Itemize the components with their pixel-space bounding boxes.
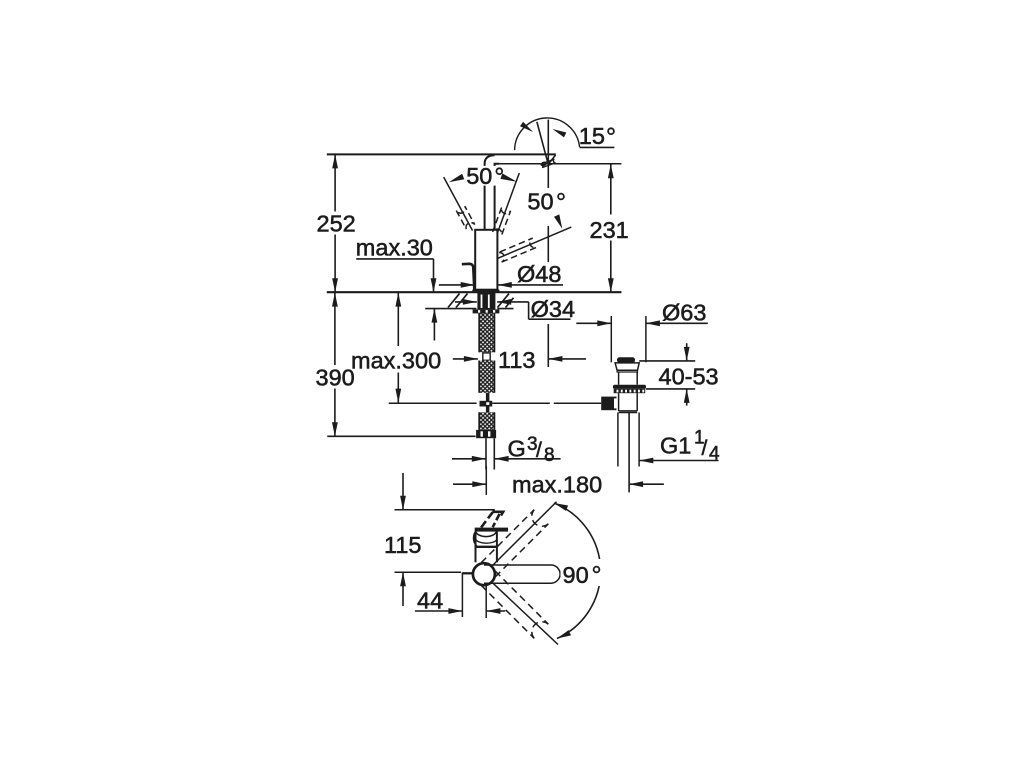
counter hatch left xyxy=(448,294,468,308)
halo 90deg xyxy=(561,559,606,586)
svg-text:252: 252 xyxy=(317,211,356,237)
drain seam xyxy=(619,411,638,413)
braided hose upper xyxy=(479,313,494,352)
dim max300 line lower xyxy=(397,373,399,403)
mounting nut xyxy=(473,309,500,313)
svg-text:Ø63: Ø63 xyxy=(662,299,706,325)
dim o63 left xyxy=(576,320,611,326)
front shaft seam xyxy=(475,546,498,548)
svg-text:4: 4 xyxy=(709,444,720,465)
max.30 drop arrow xyxy=(431,278,437,292)
spout bend inner / column right xyxy=(495,164,500,185)
svg-text:113: 113 xyxy=(498,347,535,373)
svg-text:max.180: max.180 xyxy=(512,472,602,498)
dim 390 line xyxy=(334,292,336,436)
dashed lever low-right xyxy=(498,238,537,262)
drain flange xyxy=(615,363,639,370)
svg-text:390: 390 xyxy=(316,365,355,391)
front side lever tick xyxy=(463,572,473,574)
halo 252 xyxy=(315,212,357,235)
40-53 top ref xyxy=(639,360,695,362)
svg-text:/: / xyxy=(702,437,708,460)
lever axis low-right xyxy=(498,227,572,258)
dim 115 bottom arrow xyxy=(400,572,406,606)
label 113 xyxy=(498,347,535,373)
dashed lever up-left xyxy=(456,206,474,229)
svg-text:231: 231 xyxy=(590,217,629,243)
counter underside line right xyxy=(497,308,513,310)
counter underside line left xyxy=(425,308,476,310)
dim max300 arrows xyxy=(395,293,401,403)
svg-text:90: 90 xyxy=(563,562,589,588)
pop-up rod right xyxy=(554,402,601,404)
label 115 xyxy=(384,532,421,558)
svg-text:max.300: max.300 xyxy=(351,348,441,374)
15deg arc arrowhead right xyxy=(553,129,567,137)
faucet base plate xyxy=(472,290,499,293)
hose end nut xyxy=(476,430,496,438)
label 15deg xyxy=(579,123,614,149)
svg-text:50: 50 xyxy=(527,189,553,215)
svg-text:115: 115 xyxy=(384,532,421,558)
vertical ext line below (113 right ext) xyxy=(547,226,549,367)
label G1-1/4 xyxy=(660,428,720,465)
drain tailpipe xyxy=(618,413,639,467)
pop-up rod mid xyxy=(492,402,550,404)
dim o34 left xyxy=(455,299,477,305)
pop-up rod left xyxy=(389,402,477,404)
G3/8 leader xyxy=(495,456,561,462)
halo 50-left xyxy=(465,166,505,186)
max.30 under-deck arrow xyxy=(432,309,438,341)
drain knob xyxy=(617,357,635,363)
lever axis up-right xyxy=(498,173,520,233)
dim G3/8 left xyxy=(452,456,486,462)
90deg arc xyxy=(554,503,601,639)
front view bottom ref line xyxy=(395,571,462,573)
label 390 xyxy=(316,365,355,391)
max180 left ext line xyxy=(485,466,487,495)
swivel centerline up xyxy=(492,502,557,567)
spout underside + 231 reference line xyxy=(499,163,621,165)
lever axis up-left xyxy=(444,177,473,230)
rod stem upper xyxy=(486,393,490,401)
swivel centerline down xyxy=(492,582,559,645)
svg-text:/: / xyxy=(536,439,542,462)
faucet body xyxy=(475,230,497,290)
arrowhead 50-left xyxy=(449,174,465,183)
spout aerator dark end xyxy=(540,161,548,167)
svg-text:G1: G1 xyxy=(660,432,691,458)
front spout xyxy=(484,565,560,583)
mounting shank xyxy=(477,292,495,309)
15deg tilted line xyxy=(537,122,548,164)
dashed spout up xyxy=(481,510,548,577)
dim 44 line xyxy=(415,608,463,614)
label 252 xyxy=(317,211,356,237)
label o63 xyxy=(662,299,706,325)
label 90deg xyxy=(563,562,600,588)
max.30 underline xyxy=(356,258,433,260)
svg-text:8: 8 xyxy=(544,445,555,466)
arrowhead 50-right xyxy=(554,214,562,229)
dim max180 left xyxy=(453,481,486,487)
dim 40-53 arrows xyxy=(684,343,690,405)
15deg label leader xyxy=(580,146,615,148)
drain side port xyxy=(601,397,617,411)
counter/deck line xyxy=(327,291,622,293)
o34 label frame xyxy=(529,302,571,319)
dim 113 right xyxy=(548,356,586,362)
vertical line through tip xyxy=(547,120,549,188)
90deg arc arrowheads xyxy=(554,503,571,639)
drain body xyxy=(619,393,638,411)
dim o63 right xyxy=(646,320,708,326)
G1-1/4 leader xyxy=(639,458,718,464)
15deg arc xyxy=(515,118,580,150)
front centerline below xyxy=(485,586,487,618)
front shaft ellipse top xyxy=(476,532,497,537)
svg-text:max.30: max.30 xyxy=(356,235,433,261)
svg-text:Ø48: Ø48 xyxy=(517,261,561,287)
44 ext line xyxy=(461,572,463,617)
label 50-right xyxy=(527,189,563,215)
halo 231 xyxy=(587,215,634,241)
label o34 xyxy=(531,296,575,322)
svg-text:44: 44 xyxy=(417,588,443,614)
svg-text:40-53: 40-53 xyxy=(659,364,719,390)
spout aerator outlet oval xyxy=(541,159,556,167)
label 50-left xyxy=(466,163,502,189)
G3/8 tube xyxy=(486,438,494,469)
front view top ref line xyxy=(395,509,495,511)
svg-text:50: 50 xyxy=(466,163,492,189)
drain lip xyxy=(617,370,637,372)
front lever bar xyxy=(475,528,508,532)
label max.180 xyxy=(512,472,602,498)
braided hose lower xyxy=(479,412,494,430)
dashed lever up-right xyxy=(493,208,511,236)
390 bottom ref line xyxy=(327,435,475,437)
40-53 bottom ref xyxy=(646,388,695,390)
15deg arc arrowhead left xyxy=(520,122,533,132)
label 231 xyxy=(590,217,629,243)
dim 252 line xyxy=(334,154,336,292)
svg-text:15: 15 xyxy=(579,123,605,149)
cross fitting xyxy=(480,401,493,407)
label o48 xyxy=(516,261,562,287)
front ball joint xyxy=(473,563,495,585)
front shaft left bracket xyxy=(474,529,477,546)
dim 390 arrows xyxy=(332,293,338,437)
hose joint xyxy=(483,353,490,360)
o63 ext lines xyxy=(611,316,646,362)
arrowhead 50-mid xyxy=(500,173,517,181)
braided hose mid xyxy=(479,361,494,393)
front shaft xyxy=(476,531,497,562)
dim o34 right xyxy=(497,299,528,305)
dim max180 right xyxy=(629,481,664,487)
spout column left line xyxy=(484,185,486,230)
label 44 xyxy=(417,588,443,614)
spout column right line xyxy=(494,185,496,230)
halo 390 xyxy=(314,365,356,389)
dim 44 right arrow xyxy=(486,608,505,614)
dim 231 line xyxy=(610,164,612,292)
label max.300 xyxy=(351,348,441,374)
dashed spout down xyxy=(481,571,548,638)
side lever xyxy=(462,264,475,290)
spout tip cut xyxy=(549,155,556,164)
drain lock nut xyxy=(614,389,646,393)
dim 115 top arrow xyxy=(400,473,406,510)
spout bend outer xyxy=(485,155,495,185)
drain rubber washer xyxy=(613,385,646,389)
front lever tip xyxy=(481,512,503,528)
dim 113 left xyxy=(453,356,478,362)
front shaft ellipse mid xyxy=(476,540,496,544)
label max.30 xyxy=(356,235,433,261)
dim max300 line upper xyxy=(397,292,399,346)
dim 231 arrows xyxy=(608,164,614,292)
rod stem lower xyxy=(486,407,490,413)
drain inner line / max180 right ext xyxy=(628,413,630,492)
dim o48 right xyxy=(498,282,563,288)
halo 50-right xyxy=(526,187,571,214)
svg-text:Ø34: Ø34 xyxy=(531,296,575,322)
dim 252 arrows xyxy=(332,154,338,292)
label 40-53 xyxy=(659,364,719,390)
max.30 drop line xyxy=(433,259,435,292)
top reference line (252) xyxy=(327,153,556,155)
label G3/8 xyxy=(508,434,555,466)
drain upper body xyxy=(619,372,638,385)
dim o48 left xyxy=(439,282,475,288)
counter hatch right xyxy=(498,294,514,308)
svg-text:G: G xyxy=(508,436,526,462)
